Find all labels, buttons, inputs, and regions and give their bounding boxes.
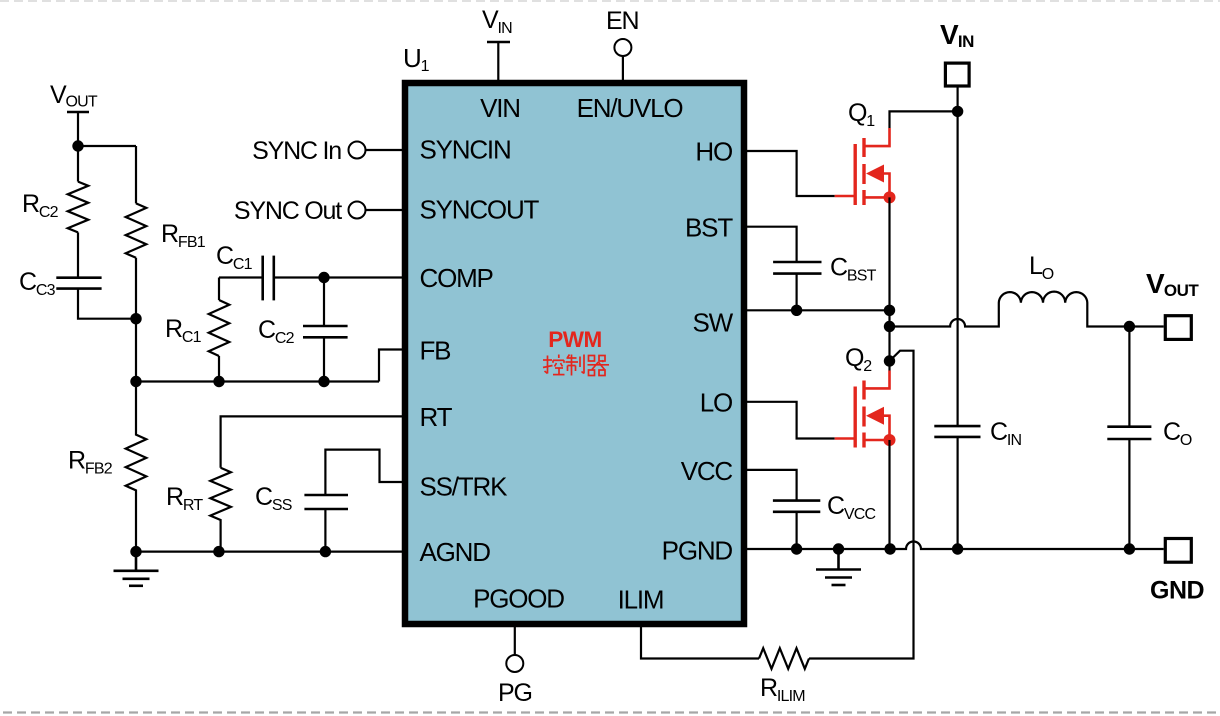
svg-text:RT: RT <box>420 402 453 432</box>
svg-text:RC1: RC1 <box>165 315 202 346</box>
node SYNC Out circle <box>349 202 366 219</box>
svg-text:COMP: COMP <box>420 263 493 293</box>
wire ILIM pin to RILIM <box>641 627 759 659</box>
capacitor CC1 <box>263 256 274 301</box>
wire VIN stub <box>497 42 499 80</box>
junction FB node left <box>130 376 141 387</box>
ground symbol left <box>114 552 159 586</box>
transistor Q2 (red NMOS) <box>835 371 896 448</box>
wire Q2 source to PGND rail <box>888 440 890 549</box>
svg-text:FB: FB <box>420 336 451 366</box>
svg-text:PG: PG <box>498 679 532 707</box>
wire LO pin to Q2 gate <box>747 402 835 439</box>
svg-text:CSS: CSS <box>255 483 292 514</box>
svg-text:Q2: Q2 <box>845 344 872 375</box>
svg-text:CO: CO <box>1163 418 1192 449</box>
svg-text:VOUT: VOUT <box>50 81 98 111</box>
svg-text:CIN: CIN <box>990 418 1022 449</box>
junction PGND/CO <box>1124 543 1135 554</box>
junction VIN rail top <box>952 106 963 117</box>
svg-text:SYNC Out: SYNC Out <box>234 197 342 225</box>
wire VIN vertical rail <box>956 111 958 426</box>
wire PGOOD stub <box>514 627 516 655</box>
svg-text:RILIM: RILIM <box>760 674 805 705</box>
wire VOUT node to RFB1 top <box>78 145 136 147</box>
terminal VOUT square <box>1165 316 1191 340</box>
svg-text:EN/UVLO: EN/UVLO <box>577 93 683 123</box>
wire BST pin to CBST <box>747 227 797 262</box>
junction PGND/CIN <box>952 543 963 554</box>
wire SW pin <box>747 309 890 311</box>
wire SYNC In to pin <box>366 149 403 151</box>
junction AGND RRT <box>213 546 224 557</box>
wire PGND rail with hop over ILIM wire <box>747 542 1164 549</box>
wire RILIM up to Q2 drain node <box>809 351 914 659</box>
svg-text:RC2: RC2 <box>22 190 59 221</box>
glyph 制 <box>566 355 585 376</box>
wire SS/TRK pin to CSS <box>325 450 402 495</box>
op-amp U1 PWM controller IC body <box>405 83 744 624</box>
resistor RFB1 <box>126 203 147 257</box>
capacitor CC3 <box>56 278 101 289</box>
wire SYNC Out to pin <box>366 209 403 211</box>
glyph 器 <box>588 356 610 376</box>
junction VOUT/CO <box>1124 321 1135 332</box>
junction AGND CSS <box>320 546 331 557</box>
wire Q1 source down SW node <box>888 197 890 361</box>
svg-text:CVCC: CVCC <box>827 492 875 523</box>
wire RC2 to CC3 <box>77 232 79 277</box>
top dashed crop border <box>0 0 1220 2</box>
svg-text:Q1: Q1 <box>848 99 875 130</box>
svg-text:CBST: CBST <box>830 254 877 285</box>
junction SW/CBST <box>791 305 802 316</box>
capacitor CSS <box>304 495 348 509</box>
junction PGND/CVCC <box>791 543 802 554</box>
wire CC2 bottom to FB node <box>323 337 325 381</box>
junction SW to LO branch <box>884 321 895 332</box>
svg-text:VOUT: VOUT <box>1146 268 1199 300</box>
wire Q1 drain to VIN rail <box>890 111 958 128</box>
svg-text:EN: EN <box>606 7 638 35</box>
resistor RFB2 <box>126 382 147 552</box>
junction FB node CC2 <box>318 376 329 387</box>
node VOUT terminal bar <box>67 111 89 114</box>
svg-text:PGOOD: PGOOD <box>473 584 564 614</box>
svg-text:LO: LO <box>700 388 732 418</box>
wire VIN square to rail <box>956 86 958 111</box>
ground symbol right <box>816 549 861 585</box>
svg-text:SYNC In: SYNC In <box>252 137 341 165</box>
svg-text:AGND: AGND <box>420 537 491 567</box>
wire CSS bottom to AGND <box>324 509 326 552</box>
capacitor CC2 <box>303 326 348 337</box>
wire SW node to inductor LO and VOUT with hop over VIN rail <box>890 292 1164 327</box>
transistor Q1 (red NMOS) <box>835 128 896 205</box>
wire CO bottom to GND rail <box>1128 439 1130 549</box>
wire CC1 left to corner <box>219 276 263 278</box>
wire VOUT stub down <box>77 112 79 146</box>
wire RC1 bottom to FB node <box>218 356 220 382</box>
wire CBST bottom to SW wire <box>795 274 797 311</box>
svg-text:GND: GND <box>1150 577 1204 605</box>
wire corner down to RC1 <box>218 278 220 301</box>
svg-text:PGND: PGND <box>662 536 733 566</box>
resistor RILIM <box>759 648 809 669</box>
svg-text:CC2: CC2 <box>258 316 295 347</box>
svg-text:BST: BST <box>685 213 733 243</box>
svg-text:VCC: VCC <box>681 456 733 486</box>
svg-text:RFB2: RFB2 <box>68 447 113 478</box>
junction SW rail <box>884 305 895 316</box>
svg-text:RRT: RRT <box>166 483 203 514</box>
wire CO vertical <box>1128 327 1130 427</box>
terminal VIN square <box>945 63 969 86</box>
wire RFB1 top lead <box>135 146 137 203</box>
junction PGND/ground <box>833 543 844 554</box>
capacitor CBST <box>773 262 821 274</box>
wire RFB1 bottom to FB node <box>135 258 137 382</box>
wire AGND rail <box>136 550 402 552</box>
capacitor CIN <box>934 426 980 437</box>
node PG circle <box>506 655 523 672</box>
wire FB step up to FB pin <box>379 350 402 382</box>
IC function label 控制器 (red CJK drawn as strokes) <box>543 355 609 376</box>
svg-text:U1: U1 <box>403 43 430 75</box>
svg-text:SYNCOUT: SYNCOUT <box>420 194 540 224</box>
junction COMP/CC2 <box>318 272 329 283</box>
wire VOUT node down to RC2 <box>77 146 79 182</box>
wire CIN bottom to PGND rail <box>956 437 958 549</box>
node EN circle <box>614 39 631 56</box>
wire COMP node down to CC2 <box>323 278 325 327</box>
node VIN terminal bar <box>487 41 510 44</box>
svg-text:SS/TRK: SS/TRK <box>420 472 509 502</box>
wire CC3 bottom to RFB1 bottom node <box>78 289 136 319</box>
junction RFB1/CC3 <box>130 313 141 324</box>
wire Q2 drain to SW node <box>888 361 890 371</box>
svg-text:SW: SW <box>693 308 734 338</box>
terminal GND square <box>1165 539 1191 563</box>
svg-text:CC3: CC3 <box>19 268 56 299</box>
svg-text:CC1: CC1 <box>216 242 253 273</box>
svg-text:ILIM: ILIM <box>618 585 664 615</box>
svg-text:VIN: VIN <box>940 19 974 51</box>
junction PGND/Q2 source <box>884 543 895 554</box>
wire EN stub <box>622 56 624 80</box>
svg-text:PWM: PWM <box>548 327 602 352</box>
svg-text:VIN: VIN <box>482 6 512 37</box>
svg-text:LO: LO <box>1029 252 1054 283</box>
node SYNC In circle <box>349 142 366 159</box>
svg-text:VIN: VIN <box>480 93 520 123</box>
resistor RRT <box>210 468 231 552</box>
wire COMP pin segment <box>274 276 402 278</box>
capacitor CVCC <box>773 501 820 512</box>
svg-text:SYNCIN: SYNCIN <box>420 135 511 165</box>
junction Q2 drain node <box>884 355 895 366</box>
junction AGND left <box>130 546 141 557</box>
resistor RC2 <box>68 182 89 233</box>
wire VCC pin to CVCC <box>747 470 797 501</box>
bottom dashed crop border <box>3 711 1220 713</box>
wire FB node horizontal <box>136 380 379 382</box>
junction FB node RC1 <box>213 376 224 387</box>
glyph 控 <box>543 355 565 375</box>
svg-text:HO: HO <box>695 137 732 167</box>
resistor RC1 <box>209 300 230 356</box>
wire HO pin to Q1 gate <box>747 151 835 196</box>
svg-text:RFB1: RFB1 <box>161 220 206 251</box>
node VOUT junction <box>72 140 83 151</box>
capacitor CO <box>1107 427 1151 439</box>
wire RT pin to RRT <box>221 416 402 467</box>
wire CVCC bottom to PGND rail <box>795 512 797 549</box>
